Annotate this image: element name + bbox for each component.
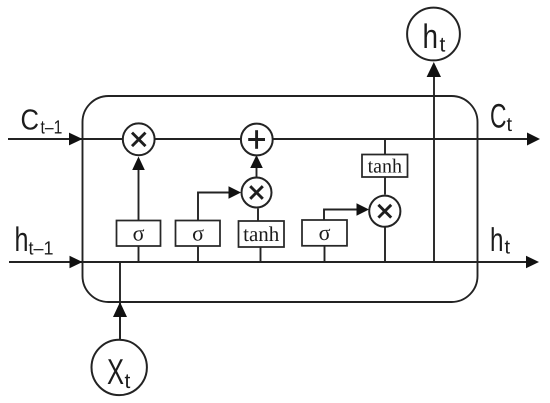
wire Xt circle stem bbox=[119, 317, 121, 340]
gate tanh2 box bbox=[362, 155, 408, 178]
cell body rounded box bbox=[83, 96, 478, 302]
symbol X in mult2 bbox=[250, 186, 263, 199]
wire tanh1 to h line bbox=[260, 247, 262, 262]
svg-text:t: t bbox=[440, 34, 446, 57]
wire sigma1 to mult1 bbox=[138, 168, 140, 221]
arrowhead Xt into box bbox=[113, 302, 127, 317]
arrowhead ht output bbox=[526, 256, 539, 269]
wire sigma2 to h line bbox=[197, 246, 199, 262]
wire tanh2 to mult3 bbox=[384, 177, 386, 195]
svg-text:h: h bbox=[490, 221, 504, 258]
wire mult2 to add1 bbox=[256, 166, 258, 177]
svg-text:tanh: tanh bbox=[243, 222, 280, 246]
svg-text:C: C bbox=[490, 97, 507, 135]
wire Xt branch bbox=[119, 262, 121, 340]
wire sigma3 to h line bbox=[324, 246, 326, 262]
op mult2 circle bbox=[242, 178, 272, 208]
gate sigma1 box bbox=[117, 221, 161, 247]
svg-text:σ: σ bbox=[192, 221, 204, 246]
arrowhead into ht circle bbox=[427, 62, 441, 77]
wire h line to ht circle bbox=[433, 75, 435, 262]
arrowhead ht-1 into box bbox=[70, 256, 83, 269]
arrowhead Ct output bbox=[527, 133, 540, 146]
wire sigma2 elbow to mult2 bbox=[198, 193, 230, 221]
svg-text:h: h bbox=[15, 221, 29, 259]
svg-text:t–1: t–1 bbox=[41, 117, 63, 138]
arrowhead mult2 into add1 bbox=[250, 155, 263, 168]
svg-text:C: C bbox=[21, 104, 40, 136]
arrowhead sigma3 into mult3 bbox=[357, 203, 370, 216]
svg-text:tanh: tanh bbox=[368, 156, 402, 178]
svg-text:t: t bbox=[505, 237, 511, 259]
wire C line bbox=[8, 138, 530, 140]
wire mult3 to h line bbox=[384, 227, 386, 263]
op mult3 circle bbox=[369, 196, 400, 227]
arrowhead Ct-1 into box bbox=[69, 133, 83, 146]
wire h line bbox=[9, 261, 530, 263]
wire tanh1 to mult2 bbox=[257, 209, 259, 222]
svg-text:h: h bbox=[423, 18, 439, 56]
svg-text:t: t bbox=[125, 370, 131, 393]
gate sigma3 box bbox=[302, 220, 347, 246]
wire sigma1 to h line bbox=[138, 246, 140, 262]
svg-text:σ: σ bbox=[319, 220, 331, 245]
wire sigma3 elbow to mult3 bbox=[324, 210, 358, 221]
gate tanh1 box bbox=[239, 221, 285, 247]
wire C line to tanh2 bbox=[384, 139, 386, 155]
node ht circle bbox=[407, 8, 460, 61]
arrowhead sigma2 into mult2 bbox=[229, 186, 242, 199]
node Xt circle bbox=[92, 340, 147, 395]
svg-text:X: X bbox=[107, 351, 124, 392]
gate sigma2 box bbox=[176, 221, 221, 247]
svg-text:t–1: t–1 bbox=[29, 238, 54, 259]
op mult1 circle on C line bbox=[123, 123, 155, 155]
svg-text:t: t bbox=[507, 114, 513, 136]
symbol X in mult1 bbox=[132, 133, 146, 147]
op add1 circle on C line bbox=[241, 124, 273, 156]
svg-text:σ: σ bbox=[133, 221, 145, 246]
symbol plus in add1 bbox=[255, 130, 258, 149]
symbol X in mult3 bbox=[378, 205, 391, 218]
arrowhead sigma1 into mult1 bbox=[132, 157, 145, 171]
